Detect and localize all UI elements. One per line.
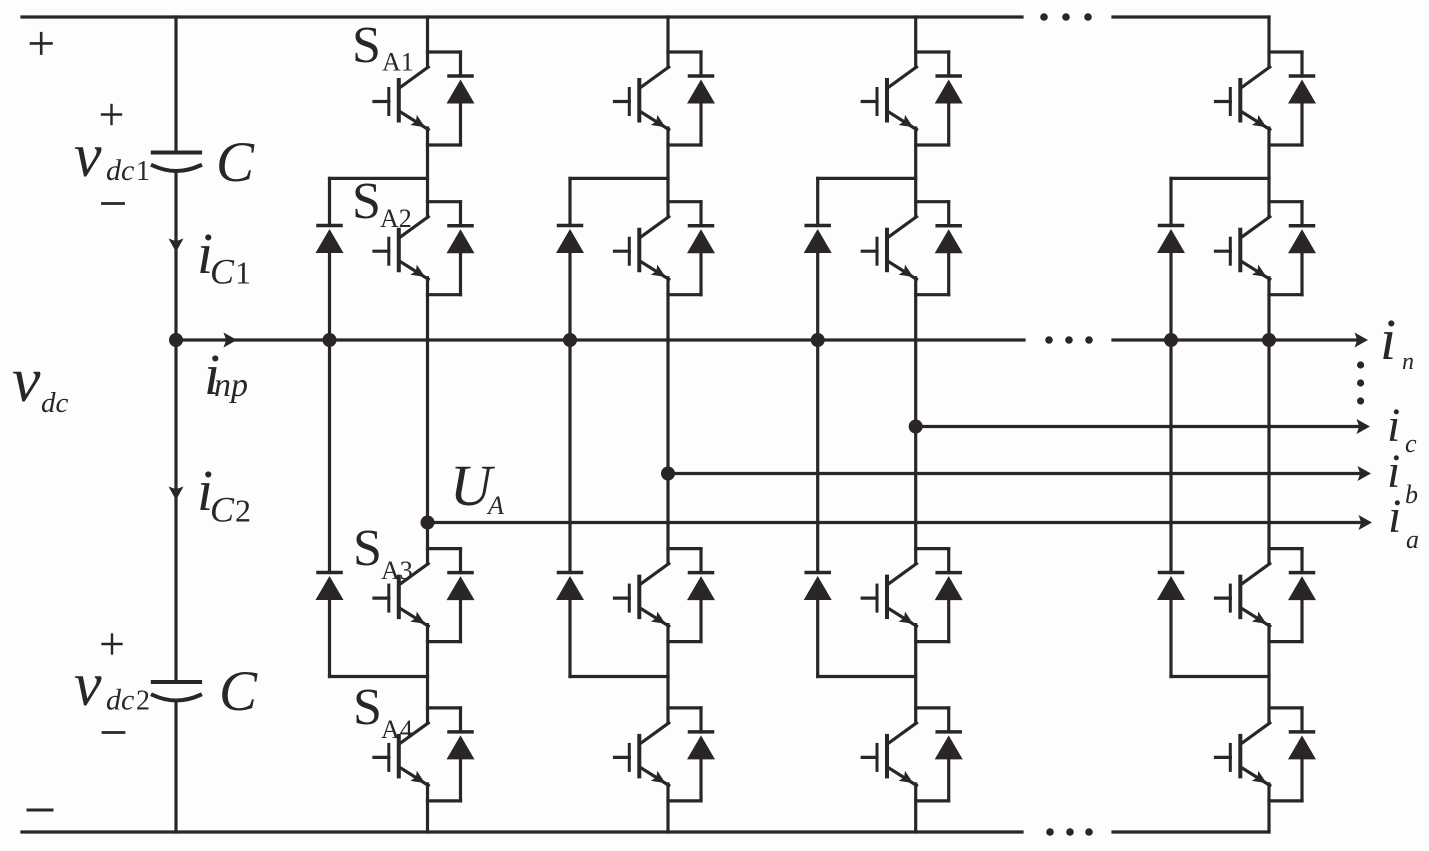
svg-text:dc: dc: [106, 154, 134, 187]
wire clamp link bottom leg B: [570, 675, 668, 678]
diode antiparallel of SB2: [687, 202, 715, 295]
diode antiparallel of SN3: [1288, 549, 1316, 642]
transistor SN1 (IGBT): [1216, 52, 1303, 145]
transistor SB2 (IGBT): [615, 202, 702, 295]
wire leg B rail segments: [666, 17, 669, 832]
wire leg N rail segments: [1267, 17, 1270, 832]
diode antiparallel of SC2: [935, 202, 963, 295]
node phase output leg C: [909, 420, 923, 434]
diode clamp DB2: [556, 573, 584, 601]
transistor SB4 (IGBT): [615, 708, 702, 801]
svg-text:A: A: [486, 491, 504, 520]
diode antiparallel of SC1: [935, 52, 963, 145]
diode clamp DB1: [556, 226, 584, 254]
arrow inp current: [224, 333, 238, 348]
wire clamp rail leg A: [328, 178, 331, 676]
wire clamp link top leg N: [1171, 177, 1269, 180]
wire leg C rail segments: [914, 17, 917, 832]
svg-text:S: S: [353, 520, 382, 577]
wire clamp link bottom leg A: [330, 675, 428, 678]
svg-text:S: S: [352, 17, 381, 74]
diode antiparallel of SA1: [447, 52, 475, 145]
arrow iC2 current: [169, 487, 184, 501]
transistor SB1 (IGBT): [615, 52, 702, 145]
svg-text:C: C: [219, 660, 258, 723]
svg-text:c: c: [1405, 429, 1417, 458]
diode antiparallel of SA3: [447, 549, 475, 642]
diode clamp DA1: [316, 226, 344, 254]
wire phase output line leg A: [428, 521, 1363, 524]
capacitor C1 plates: [153, 153, 200, 172]
label - bottom-left: [28, 809, 52, 812]
svg-text:A3: A3: [381, 556, 413, 585]
wire clamp link top leg B: [570, 177, 668, 180]
transistor SC4 (IGBT): [862, 708, 949, 801]
wire phase output line leg C: [916, 425, 1360, 428]
wire clamp link top leg C: [818, 177, 916, 180]
arrow iC1 current: [169, 239, 184, 253]
svg-text:dc: dc: [106, 684, 134, 717]
transistor SN2 (IGBT): [1216, 202, 1303, 295]
svg-text:dc: dc: [41, 387, 69, 419]
diode antiparallel of SC4: [935, 708, 963, 801]
ellipsis dots top bus: [1040, 13, 1092, 21]
ellipsis dots vertical (more phases): [1357, 361, 1364, 404]
ellipsis dots neutral line: [1045, 336, 1093, 344]
wire dc rail upper: [174, 17, 177, 153]
svg-text:1: 1: [136, 156, 150, 187]
svg-text:S: S: [352, 173, 381, 230]
svg-text:v: v: [74, 651, 102, 719]
svg-text:v: v: [12, 344, 41, 415]
capacitor C2 plates: [153, 682, 200, 701]
diode antiparallel of SB3: [687, 549, 715, 642]
svg-text:n: n: [1402, 349, 1414, 375]
node clamp-neutral junction leg C: [811, 333, 825, 347]
diode clamp DC2: [804, 573, 832, 601]
wire clamp rail leg B: [568, 178, 571, 676]
transistor SC3 (IGBT): [862, 549, 949, 642]
wire leg A rail segments: [426, 17, 429, 832]
node clamp-neutral junction leg B: [563, 333, 577, 347]
node phase output leg B: [661, 467, 675, 481]
node clamp-neutral junction leg N: [1164, 333, 1178, 347]
transistor SN3 (IGBT): [1216, 549, 1303, 642]
wire bottom bus left segment: [22, 830, 1022, 833]
diode antiparallel of SN1: [1288, 52, 1316, 145]
arrow phase output leg B: [1358, 466, 1372, 481]
wire dc rail middle: [174, 172, 177, 683]
node neutral-rail junction: [169, 333, 183, 347]
label + of vdc1: [102, 105, 121, 124]
svg-text:2: 2: [136, 686, 150, 717]
svg-text:v: v: [74, 122, 102, 190]
transistor SA2 (IGBT): [374, 202, 461, 295]
wire top bus right segment: [1113, 15, 1269, 18]
svg-text:b: b: [1405, 480, 1418, 509]
diode clamp DC1: [804, 226, 832, 254]
label - of vdc2: [103, 731, 124, 734]
transistor SC1 (IGBT): [862, 52, 949, 145]
diode antiparallel of SA4: [447, 708, 475, 801]
transistor SA1 (IGBT): [374, 52, 461, 145]
svg-text:C: C: [216, 131, 255, 194]
svg-text:A2: A2: [380, 204, 412, 233]
svg-text:C: C: [210, 490, 235, 530]
transistor SA4 (IGBT): [374, 708, 461, 801]
wire clamp link top leg A: [330, 177, 428, 180]
wire clamp rail leg C: [816, 178, 819, 676]
diode antiparallel of SC3: [935, 549, 963, 642]
wire clamp rail leg N: [1169, 178, 1172, 676]
transistor SC2 (IGBT): [862, 202, 949, 295]
wire clamp link bottom leg N: [1171, 675, 1269, 678]
wire top bus left segment: [22, 15, 1022, 18]
node phase output leg N: [1262, 333, 1276, 347]
diode antiparallel of SB4: [687, 708, 715, 801]
svg-text:np: np: [214, 367, 248, 404]
transistor SB3 (IGBT): [615, 549, 702, 642]
arrow phase output leg A: [1359, 515, 1373, 530]
wire neutral line right segment: [1113, 338, 1358, 341]
transistor SN4 (IGBT): [1216, 708, 1303, 801]
label + top-left: [31, 33, 52, 53]
svg-text:a: a: [1406, 525, 1419, 554]
ellipsis dots bottom bus: [1046, 828, 1093, 836]
wire clamp link bottom leg C: [818, 675, 916, 678]
arrow in output: [1355, 333, 1369, 348]
wire phase output line leg B: [668, 472, 1361, 475]
diode antiparallel of SA2: [447, 202, 475, 295]
wire bottom bus right segment: [1113, 830, 1269, 833]
diode clamp DN1: [1157, 226, 1185, 254]
transistor SA3 (IGBT): [374, 549, 461, 642]
node clamp-neutral junction leg A: [323, 333, 337, 347]
wire neutral line left segment: [176, 338, 1024, 341]
node phase output leg A: [421, 516, 435, 530]
diode antiparallel of SB1: [687, 52, 715, 145]
svg-text:2: 2: [235, 493, 251, 529]
svg-text:i: i: [1380, 307, 1396, 372]
svg-text:C: C: [210, 252, 235, 292]
diode antiparallel of SN4: [1288, 708, 1316, 801]
diode clamp DA2: [316, 573, 344, 601]
svg-text:i: i: [1388, 490, 1401, 543]
label + of vdc2: [103, 635, 122, 654]
svg-text:A4: A4: [381, 715, 413, 744]
diode antiparallel of SN2: [1288, 202, 1316, 295]
wire dc rail lower: [174, 701, 177, 832]
svg-text:1: 1: [235, 255, 251, 291]
arrow phase output leg C: [1357, 419, 1371, 434]
svg-text:A1: A1: [382, 48, 414, 77]
label - of vdc1: [103, 202, 124, 205]
diode clamp DN2: [1157, 573, 1185, 601]
svg-text:S: S: [353, 679, 382, 736]
